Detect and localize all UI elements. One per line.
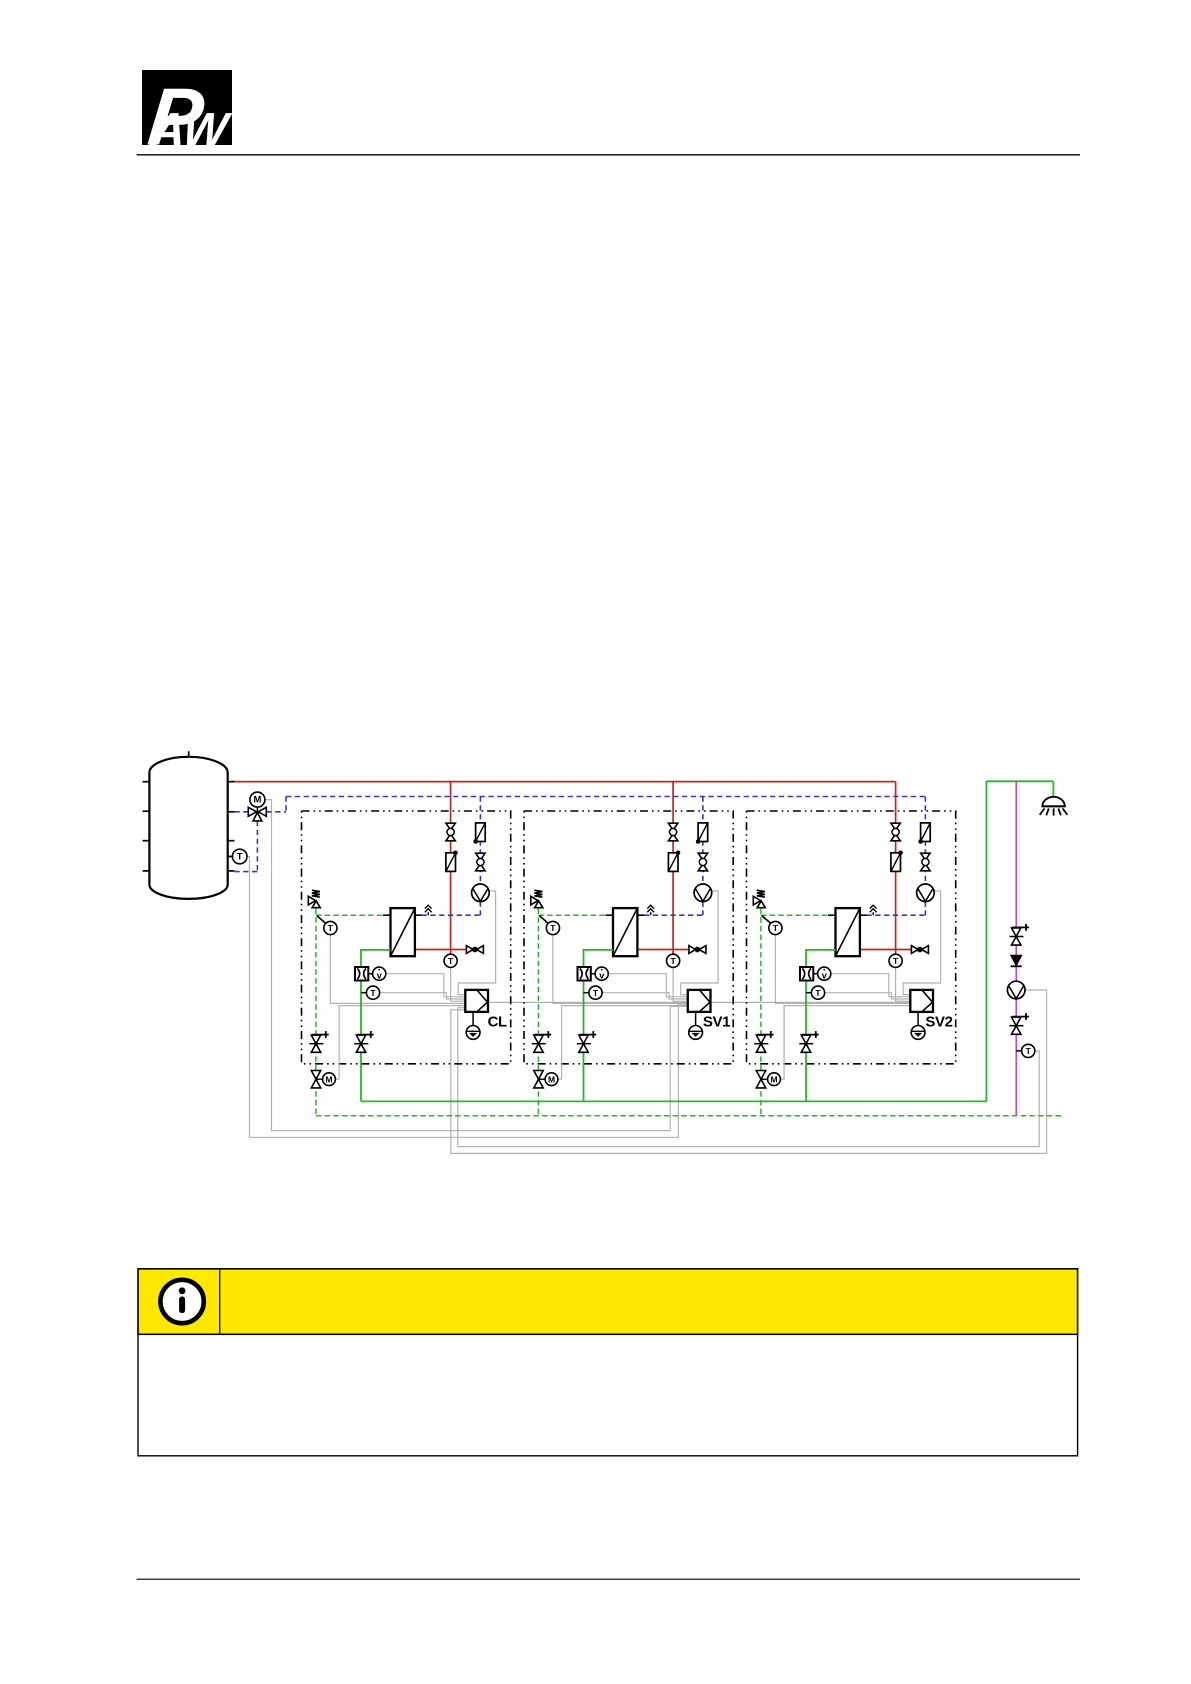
wire motor valve to controller [780,1006,910,1080]
pipe stubs at heat exchanger [383,914,422,916]
flow meter [355,967,373,981]
svg-text:AW: AW [148,103,234,156]
svg-text:M: M [325,1074,332,1084]
tank to valve pipe (blue dashed) [234,812,257,872]
wire to circulation pump right [451,990,1047,1153]
footer rule [137,1578,1080,1580]
primary supply pipe (red) [860,782,912,956]
hot water collector pipe (green) [361,1100,986,1102]
wire flow sensor V to controller [831,974,911,997]
wire tank mixing valve M to controller SV1 [265,800,688,1131]
svg-text:T: T [448,956,454,966]
header rule [137,154,1080,156]
PAW logo [142,70,234,162]
sensor T hot side [889,954,902,967]
wire flow-line sensor T to controller [825,993,911,999]
cold water inlet pipe (green dashed) [538,909,605,1116]
svg-text:T: T [370,988,376,998]
fill/drain valve hot line [799,1031,818,1052]
sensor T flow meter line [361,986,380,999]
primary return pipe (blue dashed) [644,797,703,916]
svg-text:T: T [328,923,334,933]
fill/drain valve hot line [354,1031,373,1052]
svg-text:SV2: SV2 [925,1013,952,1030]
circulation pump SV2 [917,884,935,902]
svg-text:M: M [253,795,261,806]
sensor T cold side [317,916,337,935]
circulation sensor T [1016,1044,1035,1057]
ground symbol [911,1012,925,1039]
non-return valve (blue line) [696,823,708,844]
hot water outlet pipe (green) [361,950,391,1102]
regulating valve [466,946,483,954]
controller CL [465,990,488,1012]
ball valve (blue line) [698,853,707,871]
motor zone valve M [534,1071,558,1088]
flow meter [578,967,596,981]
svg-text:T: T [1026,1046,1032,1056]
info box yellow header [138,1269,1078,1335]
wire hot-line sensor T to controller [673,967,688,1001]
circulation pump SV1 [694,884,712,902]
info icon [160,1280,203,1323]
motor zone valve M [311,1071,335,1088]
sensor T flow meter line [584,986,603,999]
ball valve (blue line) [921,853,930,871]
fill/drain valve cold line [309,1031,328,1052]
station SV2 boundary (dash-dot frame) [747,811,956,1064]
heat exchanger [613,908,637,956]
flow meter [800,967,818,981]
wire flow-line sensor T to controller [602,993,688,999]
svg-text:T: T [893,956,899,966]
station CL boundary (dash-dot frame) [302,811,511,1064]
ball valve (red line) [668,823,677,841]
air vent [425,905,432,915]
svg-text:T: T [670,956,676,966]
svg-text:v: v [822,970,827,980]
wire pump to controller [458,891,495,995]
svg-text:T: T [550,923,556,933]
ball valve (red line) [891,823,900,841]
svg-text:T: T [237,852,243,863]
wire cold sensor T to controller [330,935,465,1004]
flow sensor V [595,967,608,980]
cold water inlet pipe (green dashed) [316,909,383,1116]
fill/drain valve hot line [577,1031,596,1052]
primary return header pipe (blue dashed) [266,797,925,812]
non-return valve (blue line) [918,823,930,844]
check valve circulation [1011,955,1022,966]
circulation pump CL [472,884,490,902]
pipe stubs at heat exchanger [606,914,645,916]
circulation pipe (magenta) [1015,781,1017,1116]
ball valve (blue line) [476,853,485,871]
tank connection stubs [143,782,235,871]
shower outlet [1040,797,1068,816]
hot water outlet pipe (green) [806,950,836,1102]
wire controller bus CL-SV1 [488,1001,688,1003]
label CL [488,1013,507,1030]
primary return pipe (blue dashed) [867,797,926,916]
svg-text:M: M [770,1074,777,1084]
hot water outlet pipe (green) [584,950,614,1102]
ground symbol [466,1012,480,1039]
sensor T cold side [539,916,559,935]
flow sensor V [818,967,831,980]
cold water main pipe (green dashed) [316,1115,1062,1117]
safety valve [308,890,320,908]
station SV1 boundary (dash-dot frame) [524,811,733,1064]
primary supply pipe (red) [637,782,689,956]
tank sensor T [232,849,247,864]
fill/drain valve cold line [532,1031,551,1052]
regulating valve [689,946,706,954]
controller SV1 [688,990,711,1012]
label SV1 [703,1013,730,1030]
sensor T hot side [667,954,680,967]
non-return valve (blue line) [473,823,485,844]
fill/drain valve circulation top [1010,924,1029,945]
svg-text:v: v [377,970,382,980]
cold water inlet pipe (green dashed) [761,909,828,1116]
sensor T hot side [444,954,457,967]
hot water supply pipe (green) [986,781,1053,1101]
heat exchanger [836,908,860,956]
wire tank sensor T to controller SV1 [247,857,688,1138]
heat exchanger [391,908,415,956]
wire motor valve to controller [335,1006,465,1080]
svg-text:v: v [599,970,604,980]
label SV2 [925,1013,952,1030]
svg-text:M: M [548,1074,555,1084]
non-return valve (red line) [891,851,903,872]
info box body [138,1334,1078,1455]
svg-text:SV1: SV1 [703,1013,730,1030]
svg-text:T: T [815,988,821,998]
motor zone valve M [756,1071,780,1088]
sensor T flow meter line [806,986,825,999]
air vent [870,905,877,915]
wire hot-line sensor T to controller [451,967,466,1001]
wire motor valve to controller [558,1006,688,1080]
svg-text:T: T [773,923,779,933]
wire controller bus SV1-SV2 [711,1001,911,1003]
safety valve [753,890,765,908]
non-return valve (red line) [446,851,458,872]
storage tank [149,751,227,899]
safety valve [531,890,543,908]
sensor T cold side [762,916,782,935]
ground symbol [689,1012,703,1039]
controller SV2 [910,990,933,1012]
non-return valve (red line) [668,851,680,872]
circulation pump [1007,981,1025,999]
wire flow sensor V to controller [608,974,688,997]
wire cold sensor T to controller [775,935,910,1004]
3-way mixing valve with motor M [248,792,266,821]
flow sensor V [373,967,386,980]
wire to circulation sensor T right [458,1008,1039,1147]
svg-text:CL: CL [488,1013,507,1030]
pipe stubs at heat exchanger [828,914,867,916]
wire flow sensor V to controller [386,974,466,997]
wire pump to controller [681,891,718,995]
air vent [647,905,654,915]
fill/drain valve circulation bottom [1010,1013,1029,1034]
wire hot-line sensor T to controller [896,967,911,1001]
ball valve (red line) [446,823,455,841]
regulating valve [911,946,928,954]
wire pump to controller [903,891,940,995]
primary flow header pipe (red) [231,781,896,783]
wire cold sensor T to controller [553,935,688,1004]
svg-text:T: T [593,988,599,998]
fill/drain valve cold line [754,1031,773,1052]
primary supply pipe (red) [415,782,467,956]
wire flow-line sensor T to controller [380,993,466,999]
primary return pipe (blue dashed) [422,797,481,916]
